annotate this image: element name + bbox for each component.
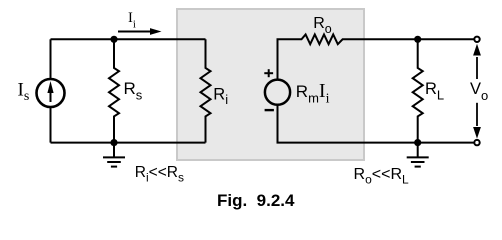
svg-text:Fig. 9.2.4: Fig. 9.2.4: [217, 191, 295, 210]
